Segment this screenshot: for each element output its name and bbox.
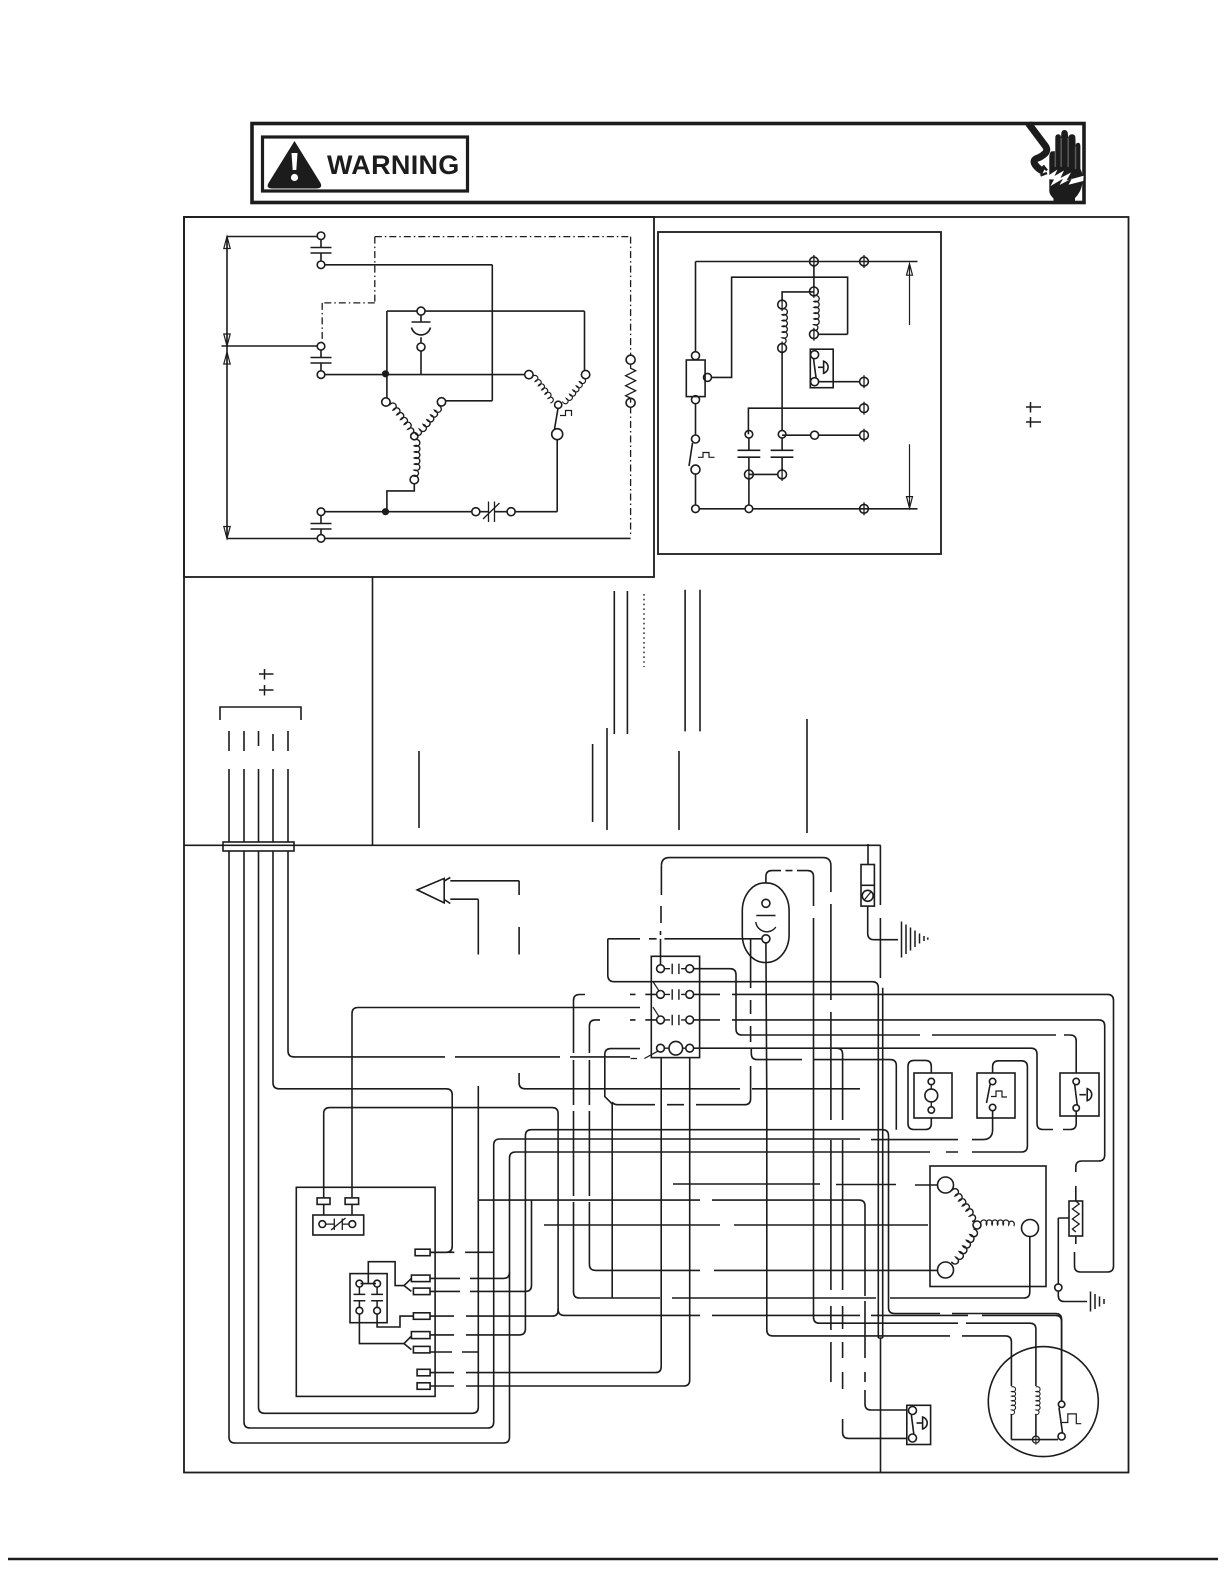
wire coil to cap [781, 352, 783, 430]
fan coil 1 [1010, 1387, 1015, 1415]
junction dot bottom [383, 509, 389, 515]
fan relay coil terminal [778, 298, 787, 311]
run 1225 compressor lead b [544, 1224, 928, 1226]
voltage dimension line left [226, 237, 228, 539]
heater case ground wire [1058, 1218, 1069, 1284]
warning banner outer box [252, 124, 1084, 203]
coil terminal [810, 285, 819, 298]
junction dot [383, 371, 389, 377]
arrowhead up top [224, 237, 230, 249]
wire second bus [732, 277, 848, 334]
band wire stub d [678, 751, 680, 830]
arrowhead down bottom [224, 527, 230, 539]
run 1270 compressor lead c (from contactor pole3) [589, 1020, 937, 1271]
compressor common lead [574, 1049, 1030, 1298]
wire T8 to contactor [430, 1058, 690, 1386]
wire T6 to field wire 3 [430, 1351, 478, 1353]
internal thermostat oval [742, 883, 789, 963]
middle band divider wire [372, 577, 374, 845]
compressor winding center [973, 1221, 981, 1229]
terminal tab T5 [411, 1332, 430, 1339]
band wire pair from control box [685, 590, 700, 732]
wire cap left down [748, 479, 750, 505]
wire pole3 right long run to heater top [694, 1020, 1105, 1172]
wire L2 middle [222, 345, 318, 347]
main diagram outer border [184, 217, 1129, 1473]
band wire pair from compressor box [614, 591, 627, 734]
splice double line [878, 988, 882, 1338]
compressor motor box [930, 1166, 1046, 1287]
terminal R [860, 255, 869, 268]
contactor coil CC [813, 295, 819, 330]
control board box [296, 1187, 435, 1396]
band dotted wire [643, 594, 645, 667]
wire coil jumper [782, 292, 814, 300]
fan bottom bus [1011, 1439, 1058, 1441]
field wire 5 (to contactor coil) [288, 851, 630, 1057]
board overload component box [313, 1215, 364, 1235]
low pressure control fuse body [867, 844, 869, 865]
wire pole3 left [630, 1019, 657, 1021]
wire band to splice [879, 845, 881, 978]
wire top bus [696, 261, 918, 263]
run capacitor right [778, 430, 786, 438]
run 1184 compressor R lead [673, 1184, 937, 1185]
crankcase heater [1069, 1201, 1083, 1236]
wire cap bottoms jumper [749, 473, 778, 475]
field wiring bundle wires [229, 769, 288, 842]
fan coil 2 [1035, 1387, 1040, 1415]
voltage dimension arrow bottom-right [907, 444, 913, 508]
wire cap left to terminal F [748, 408, 859, 434]
fan internal switch [1058, 1401, 1064, 1407]
terminal T [810, 255, 819, 268]
internal overload protector OL [417, 307, 425, 315]
wire pole2 right long run to heater bottom [694, 994, 1114, 1272]
wire T1 right stub [430, 1251, 494, 1253]
wire fan switch feed from T4 corner [558, 1309, 1062, 1401]
dashed lead corner [798, 871, 814, 940]
board fuse link 1 [323, 1114, 325, 1198]
field wire 1 (to T2 riser loop) [229, 851, 930, 1443]
wire T4 to run 1108 [324, 1108, 558, 1317]
wire T5 to fan switch [430, 1130, 1062, 1401]
link oval line to compressor-C run [612, 939, 750, 1105]
band wire stub b [592, 744, 594, 822]
terminal tab T7 [417, 1369, 430, 1376]
chassis ground top [902, 922, 928, 958]
band wire stub a [418, 751, 420, 828]
contactor coil row [657, 1044, 665, 1052]
board relay contacts [354, 1287, 384, 1307]
board relay wiring to terminals [361, 1262, 412, 1292]
capacitor C1 [317, 232, 325, 240]
terminal tab T4 [413, 1313, 430, 1320]
wire pole2 left [630, 993, 657, 995]
wire left vertical to winding [386, 311, 388, 398]
splice single continuation to border [880, 1338, 882, 1473]
arrowhead pair middle [224, 334, 230, 364]
wire C2 to bus [325, 351, 525, 375]
box2 bottom lead [972, 1111, 993, 1140]
dashed lead over oval [774, 870, 798, 872]
field wire 2 (to T1 riser loop) [244, 851, 958, 1428]
wire pole1 right to box3 [694, 969, 1077, 1073]
arrow tail bottom line [450, 898, 478, 900]
internal thermostat switch [555, 408, 559, 429]
wire coil right run to box3 bottom [694, 1048, 1077, 1129]
compressor winding TL [938, 1177, 954, 1193]
wire top internal bus [387, 310, 585, 312]
hand icon: finger separations [1055, 138, 1075, 169]
power entry arrow [417, 878, 450, 904]
compressor winding BL [951, 1228, 979, 1266]
wire run 1152 dash end [946, 1151, 1010, 1153]
arrow line down to run 1089 [519, 881, 860, 1089]
terminal tab T3 [413, 1288, 430, 1295]
warning inner label box [263, 137, 468, 191]
terminal tab T1 [415, 1249, 430, 1256]
wire T7 to contactor [430, 1058, 661, 1373]
run capacitor with bleed (slash) [472, 508, 480, 516]
board fuse link 2 [351, 1014, 353, 1198]
field wiring bracket [220, 707, 301, 720]
terminal tab T6 [413, 1346, 430, 1353]
field wire 3 (to T6 riser) [259, 851, 479, 1413]
wire transformer bottom [695, 404, 697, 435]
wire herm bus [782, 434, 859, 436]
accessory vertical [830, 875, 832, 1382]
crankcase heater resistor right [626, 355, 635, 364]
wire winding bottom jog [387, 484, 414, 512]
hand icon: wrist [1054, 196, 1076, 203]
wire bottom [227, 537, 631, 539]
field wiring bundle dashes [229, 731, 288, 751]
fuse lead to ground [868, 906, 898, 940]
bushing terminal block [223, 842, 294, 851]
wire right vertical [584, 311, 586, 370]
wire board bar2 run 1007 [352, 1008, 640, 1014]
wire pole1 vertical from thermostat line [660, 939, 662, 965]
warning triangle icon [268, 141, 322, 189]
page bottom rule [8, 1558, 1218, 1560]
field wire 4 (to T1 stub) [273, 851, 452, 1252]
band separator wire [184, 844, 881, 846]
hand icon: arc sparks [1041, 166, 1048, 176]
ground reference marks right [1026, 402, 1041, 428]
defrost relay box [810, 349, 833, 388]
capacitor C2 [317, 342, 325, 350]
compressor shell dash-dot boundary [322, 237, 630, 536]
box2 switch component [977, 1073, 1015, 1118]
arrow tail top line [450, 880, 519, 882]
transformer primary resistor [695, 262, 697, 352]
compressor schematic box (top-left) [184, 217, 654, 577]
dash-dot accessory path [661, 858, 831, 875]
band wire stub e [806, 719, 808, 833]
wire relay to terminal [819, 381, 860, 383]
oval top lead [766, 871, 774, 883]
wire T3 riser [430, 1200, 532, 1291]
contactor pole 3 [657, 1016, 665, 1024]
start winding Y right [525, 370, 533, 378]
svg-text:WARNING: WARNING [327, 150, 460, 180]
terminal tab T2 [411, 1275, 430, 1282]
hand icon: palm and fingers [1049, 130, 1083, 199]
contactor pole 2 [657, 991, 665, 999]
contactor pole 1 [657, 965, 665, 973]
wire T2 to riser [430, 1272, 510, 1278]
wire C1 to winding [325, 265, 493, 401]
accessory drop to contactor pole1 [660, 866, 663, 935]
chassis ground bottom [1091, 1292, 1105, 1312]
contactor coil blade [631, 1051, 658, 1058]
hand icon: lightning bolt [1043, 170, 1084, 187]
box2 top riser to run 1152 [993, 1061, 1028, 1152]
compressor winding R [981, 1220, 1015, 1226]
pressure switch [692, 435, 700, 443]
fan motor lead from dashed path [814, 940, 1036, 1386]
band wire stub c [606, 728, 608, 830]
board relay box [350, 1274, 387, 1323]
main winding Y [382, 398, 390, 406]
run 1060 with risers [751, 1048, 896, 1130]
wire bottom run [325, 511, 557, 513]
fan relay coil FRC [781, 309, 787, 344]
ground reference marks left [259, 669, 274, 696]
wire transformer tap [712, 277, 732, 378]
capacitor C3 [317, 508, 325, 516]
wire bottom bus [699, 508, 917, 510]
voltage dimension arrow top-right [907, 264, 913, 325]
box1 relay component [914, 1073, 952, 1118]
box3 defrost relay [1060, 1073, 1099, 1116]
box1 feed loop [908, 1060, 931, 1129]
run capacitor left [745, 430, 753, 438]
wire contactor pole2 drop to T7 run [574, 995, 586, 1293]
wire drop to fan relay bottom [837, 1048, 906, 1438]
box3 bottom lead [1075, 1111, 1077, 1116]
oval motor protector junction line [664, 938, 762, 940]
fan relay box bottom [907, 1405, 931, 1444]
oval bottom lead to fan coil 1 [766, 943, 1012, 1386]
elbow down from thermostat line [608, 939, 879, 990]
thermostat line from contactor to elbow [608, 938, 657, 940]
contactor coil wire down [813, 266, 815, 287]
contactor box [651, 956, 699, 1057]
hand icon: wire/cable [1029, 124, 1047, 172]
run 1200 to fan relay [478, 1200, 906, 1410]
control schematic box (top-right) [658, 232, 941, 554]
terminal tab T8 [417, 1383, 430, 1390]
electric shock hand icon [1029, 124, 1084, 204]
fan motor circle [988, 1347, 1098, 1457]
wire L1 top [227, 236, 318, 238]
